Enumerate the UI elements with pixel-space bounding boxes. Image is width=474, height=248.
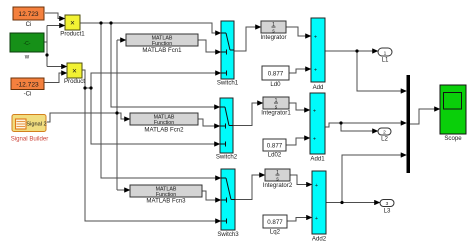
svg-text:Integrator: Integrator	[260, 34, 286, 41]
svg-text:Switch2: Switch2	[216, 154, 238, 161]
svg-text:Integrator2: Integrator2	[263, 182, 293, 189]
svg-text:+: +	[314, 35, 317, 41]
svg-text:Product1: Product1	[60, 31, 85, 38]
svg-text:+: +	[313, 109, 316, 115]
svg-text:Switch1: Switch1	[217, 80, 239, 87]
svg-text:3: 3	[386, 201, 389, 207]
svg-text:Scope: Scope	[444, 135, 462, 142]
svg-text:-12.723: -12.723	[16, 82, 39, 89]
svg-text:Integrator1: Integrator1	[261, 110, 291, 117]
svg-text:Add: Add	[313, 84, 324, 91]
svg-text:-C-: -C-	[24, 41, 31, 47]
svg-text:Ci: Ci	[26, 21, 32, 28]
svg-text:Product: Product	[64, 78, 85, 85]
svg-text:Signal Builder: Signal Builder	[11, 136, 49, 143]
svg-text:1: 1	[384, 50, 387, 56]
svg-text:+: +	[313, 137, 316, 143]
svg-text:+: +	[315, 183, 318, 189]
svg-text:Function: Function	[154, 120, 174, 126]
svg-text:Signal 2: Signal 2	[26, 122, 46, 128]
svg-text:Ld02: Ld02	[268, 152, 282, 159]
svg-text:Add1: Add1	[310, 156, 325, 163]
svg-text:+: +	[315, 216, 318, 222]
svg-text:-Ci: -Ci	[24, 91, 32, 98]
svg-text:×: ×	[72, 67, 77, 76]
svg-text:Ld0: Ld0	[270, 81, 281, 88]
svg-text:L3: L3	[384, 208, 391, 215]
svg-text:MATLAB Fcn2: MATLAB Fcn2	[144, 127, 184, 134]
svg-text:Add2: Add2	[312, 236, 327, 243]
svg-text:0.877: 0.877	[267, 219, 283, 226]
svg-text:L1: L1	[382, 57, 389, 64]
svg-text:×: ×	[70, 19, 75, 28]
svg-text:MATLAB Fcn3: MATLAB Fcn3	[146, 198, 186, 205]
svg-text:w: w	[24, 54, 30, 61]
svg-text:Switch3: Switch3	[217, 231, 239, 238]
svg-text:MATLAB Fcn1: MATLAB Fcn1	[142, 47, 182, 54]
svg-text:0.877: 0.877	[267, 143, 283, 150]
svg-text:+: +	[314, 68, 317, 74]
svg-text:L2: L2	[381, 136, 388, 143]
svg-text:Lq2: Lq2	[270, 229, 281, 236]
svg-text:12.723: 12.723	[18, 11, 39, 18]
svg-text:0.877: 0.877	[268, 71, 284, 78]
